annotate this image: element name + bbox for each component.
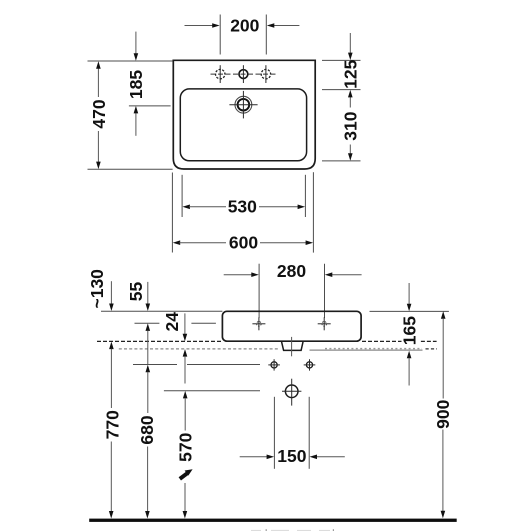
dim 900 <box>441 311 446 319</box>
svg-text:680: 680 <box>137 415 157 444</box>
svg-text:570: 570 <box>176 432 196 461</box>
drain level ext line <box>164 390 260 392</box>
dimension 470 (left) <box>88 60 173 62</box>
dimension 185 (left inner) <box>135 32 137 54</box>
dashed line: basin underside level <box>97 340 222 342</box>
dim 165 <box>408 283 410 304</box>
svg-text:~130: ~130 <box>87 269 107 309</box>
fixing-hole level extension segments <box>135 322 160 324</box>
rim extension line left <box>101 310 222 312</box>
svg-text:530: 530 <box>228 197 257 217</box>
dashed grey line: mounting surface level (left) <box>119 348 280 350</box>
tap hole row centerline (dashed) <box>211 73 277 75</box>
wall fixing hole right <box>306 362 312 368</box>
svg-text:55: 55 <box>126 282 146 302</box>
floor line <box>89 519 457 522</box>
right fixing mark in basin <box>318 323 331 325</box>
dimension 125 (right) <box>322 59 361 61</box>
dim ~130 <box>110 281 112 304</box>
svg-text:125: 125 <box>340 59 360 88</box>
dimension 310 (right) <box>349 97 351 108</box>
fixing hole level ext line <box>133 364 177 366</box>
dim 24 <box>184 313 186 334</box>
drain pipe circle <box>285 385 298 398</box>
drain trapezoid under basin <box>282 342 303 351</box>
grey surface line with hatch (right) <box>310 349 423 351</box>
svg-text:770: 770 <box>102 410 122 439</box>
inner basin rounded rect <box>180 89 306 161</box>
dim 55 <box>147 282 149 304</box>
svg-text:165: 165 <box>399 316 419 345</box>
svg-text:470: 470 <box>89 99 109 128</box>
dim 770 <box>109 342 114 350</box>
dim 150 <box>273 397 275 469</box>
svg-text:900: 900 <box>433 399 453 428</box>
wall fixing hole left <box>271 362 277 368</box>
dimension 280 (front top) <box>258 264 260 318</box>
svg-text:150: 150 <box>277 446 306 466</box>
basin body front view <box>222 311 361 341</box>
dimension 530 (bottom of top view) <box>181 175 183 217</box>
washbasin outer outline (plan view) <box>173 60 315 169</box>
left pre-punched tap hole (dashed circle) <box>216 69 225 78</box>
faint cut-off caption marks at bottom <box>251 529 330 531</box>
dim 570 <box>183 391 188 399</box>
right pre-punched tap hole (dashed circle) <box>261 69 270 78</box>
centre tap hole <box>239 70 248 79</box>
dim 680 <box>146 365 151 373</box>
dimension 600 (bottom of top view) <box>171 173 173 253</box>
rim extension line right <box>370 310 449 312</box>
centerline through trapezoid <box>291 337 293 356</box>
faucet / drain hole double circle <box>235 96 252 113</box>
svg-text:24: 24 <box>162 312 182 332</box>
oblique arrow under 570 <box>180 469 193 479</box>
svg-text:185: 185 <box>126 70 146 99</box>
svg-text:600: 600 <box>229 232 258 252</box>
svg-text:280: 280 <box>277 261 306 281</box>
left fixing mark in basin <box>252 323 265 325</box>
dimension 200 (top) <box>219 15 221 55</box>
svg-text:200: 200 <box>230 16 259 36</box>
svg-text:310: 310 <box>341 111 361 140</box>
